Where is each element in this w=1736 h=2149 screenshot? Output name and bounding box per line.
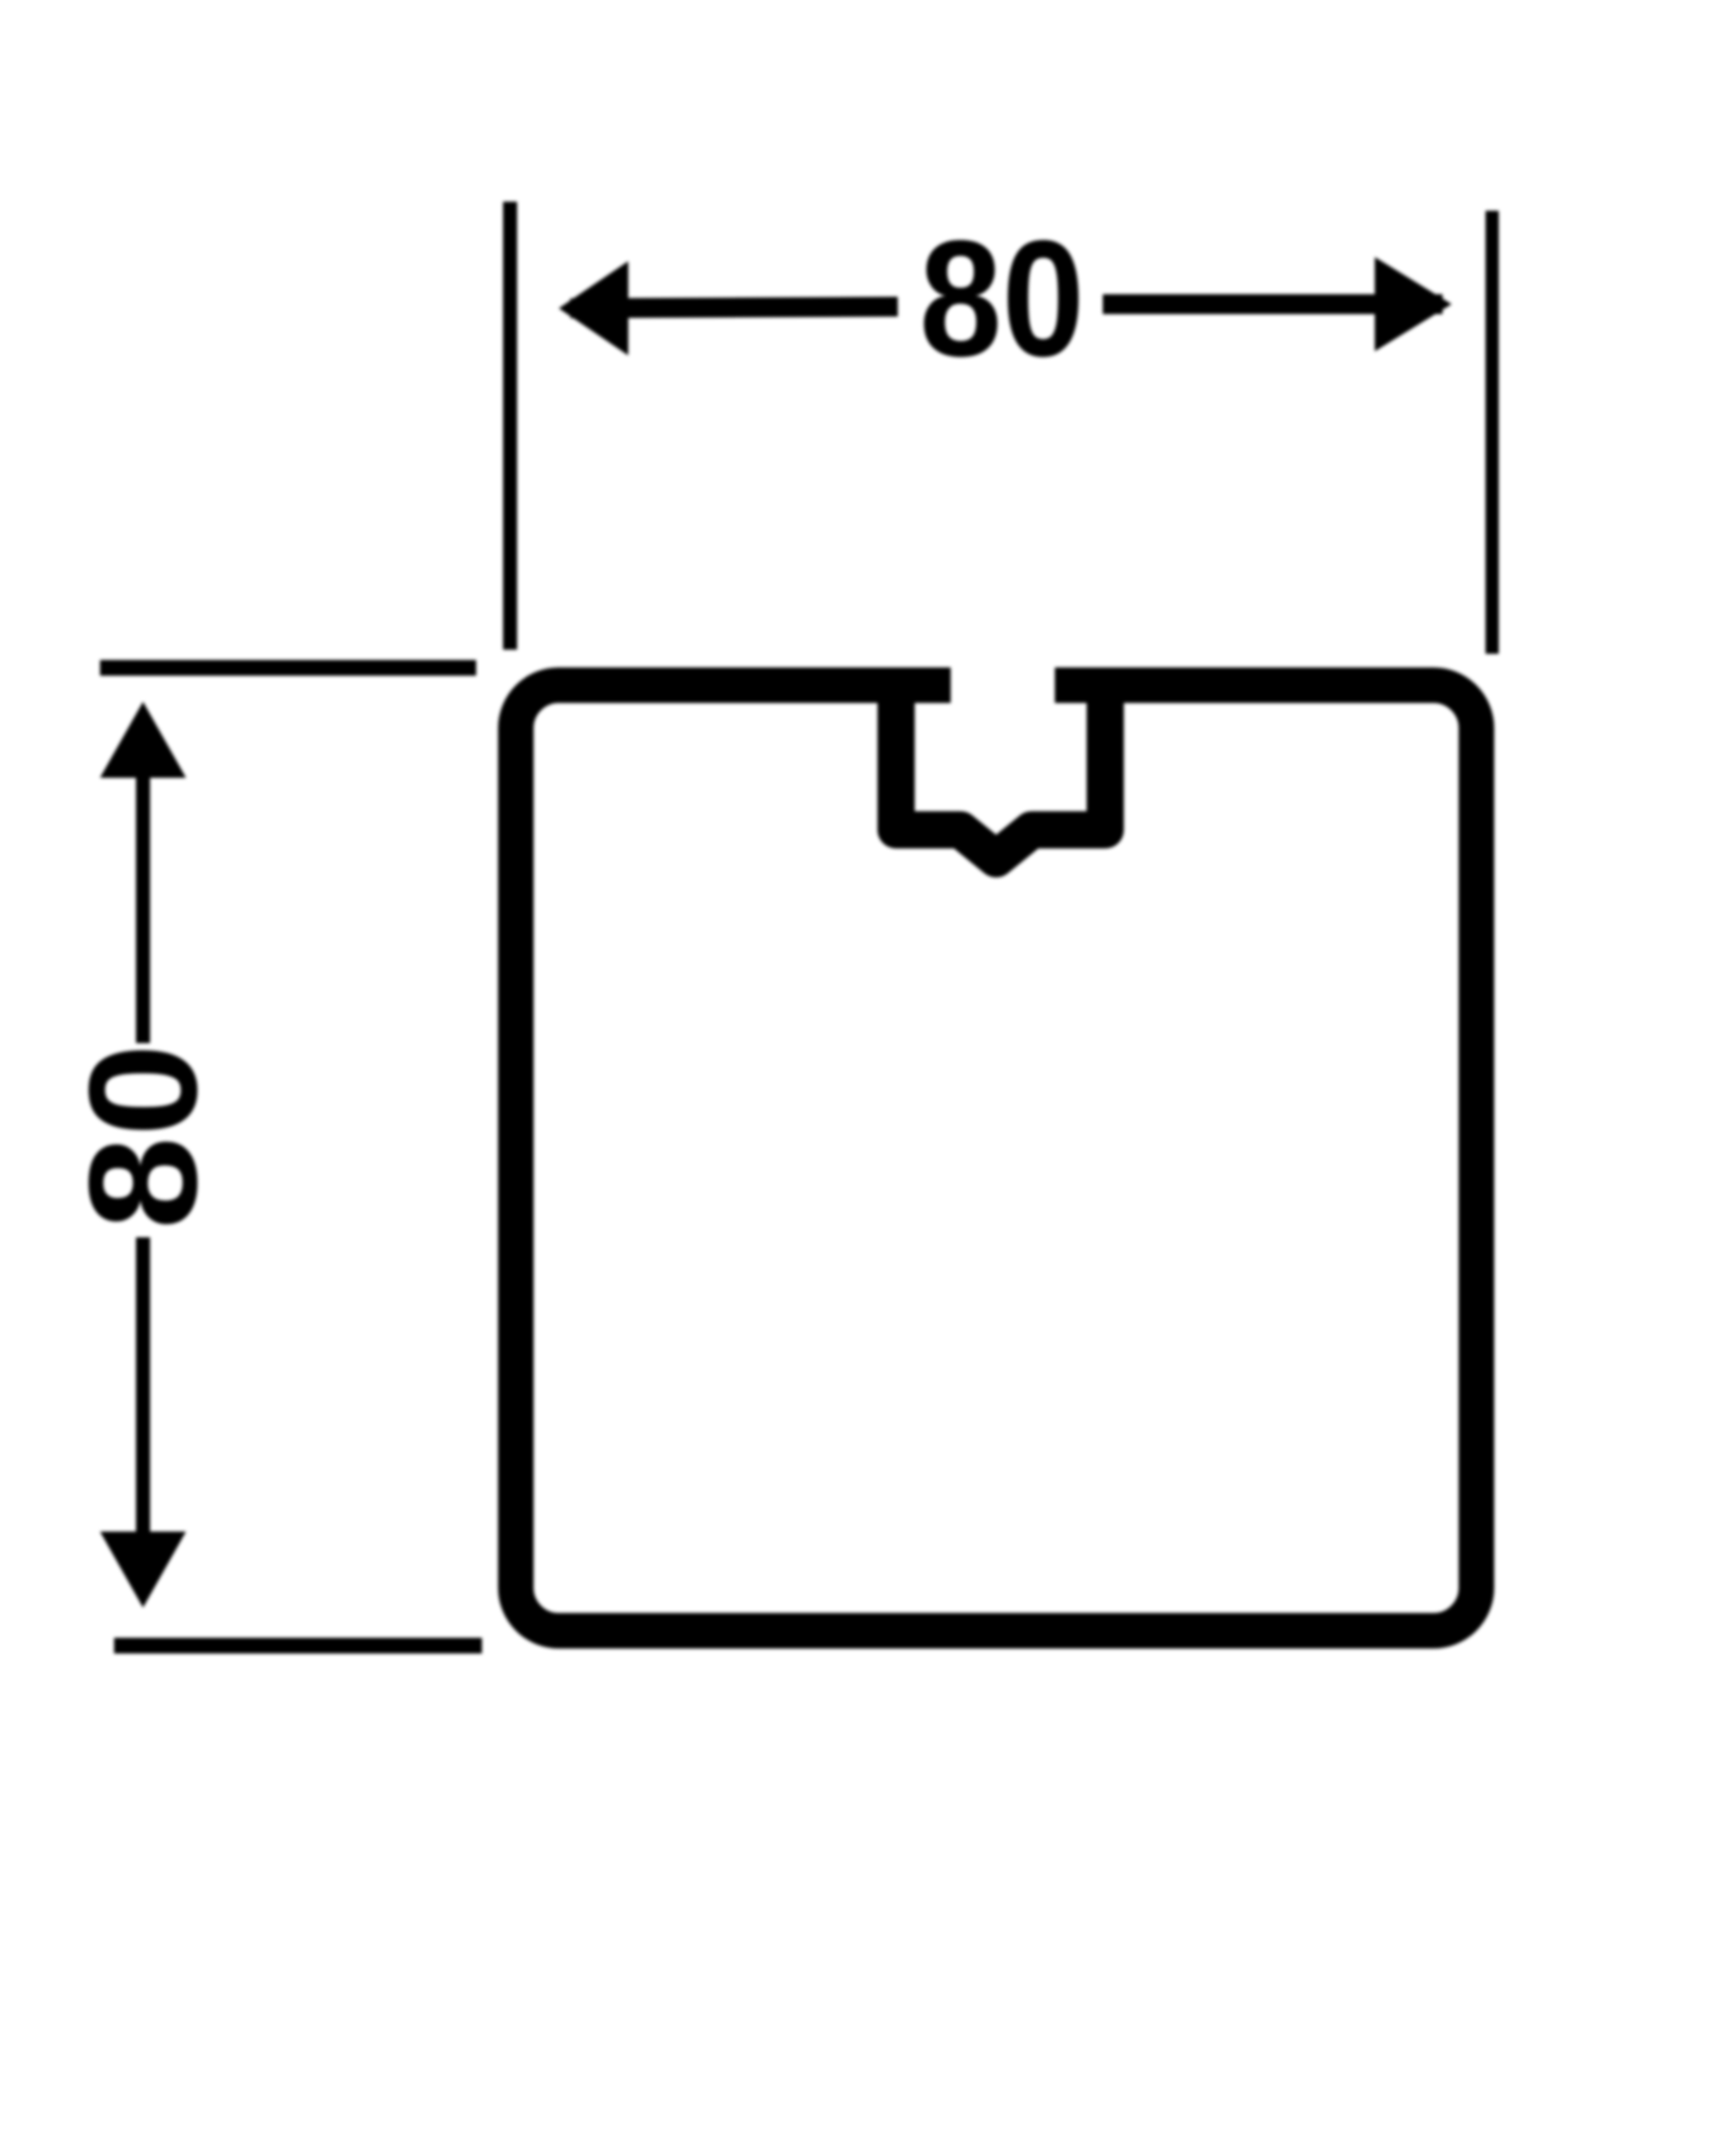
extension line, top dimension right [1486,211,1499,654]
dimension line 80 left, lower shaft [136,1237,150,1570]
svg-text:80: 80 [919,207,1085,391]
arrowhead up (left dimension) [100,702,186,778]
arrowhead down (left dimension) [100,1532,186,1608]
arrowhead left (top dimension) [559,261,628,355]
extension line, top dimension left [503,202,517,650]
arrowhead right (top dimension) [1375,257,1452,351]
slot cavity (T-slot walls, bottom with V notch) [896,676,1105,859]
profile outer outline (80x80 square tube, gap at top slot opening) [516,685,1476,1631]
svg-text:80: 80 [58,1044,229,1230]
dimension line 80 top, right shaft [1103,294,1443,314]
dimension line 80 left, upper shaft [136,744,150,1043]
dimension line 80 top, left shaft [570,307,898,308]
extension line, left dimension bottom [114,1638,482,1654]
extension line, left dimension top [100,660,476,676]
